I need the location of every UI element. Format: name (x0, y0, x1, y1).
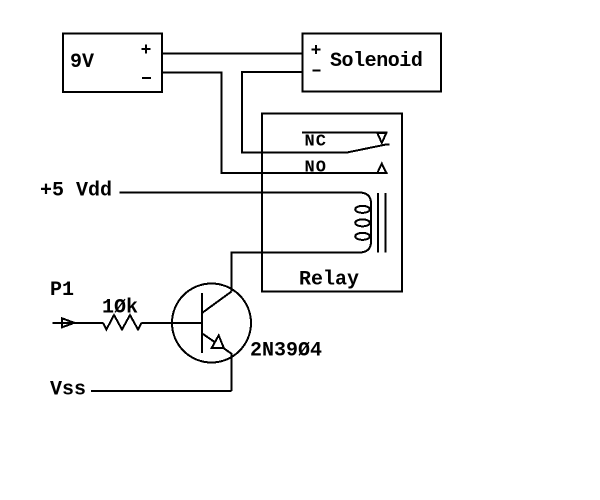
relay NC contact line (302, 132, 388, 134)
relay coil loop 2 (355, 219, 370, 226)
wire +5 Vdd to relay coil (120, 192, 263, 194)
svg-text:P1: P1 (50, 279, 74, 302)
svg-text:Relay: Relay (299, 269, 359, 292)
transistor emitter lead (202, 333, 232, 391)
resistor R1 10k zigzag (103, 315, 142, 330)
svg-text:+5 Vdd: +5 Vdd (40, 180, 112, 203)
transistor collector lead (202, 292, 232, 314)
svg-text:NO: NO (305, 159, 327, 178)
wire coil to collector (232, 253, 263, 292)
relay core line 1 (377, 193, 379, 253)
transistor Q1 circle (172, 284, 251, 363)
svg-text:1Øk: 1Øk (102, 297, 138, 320)
wire resistor to base (142, 322, 202, 324)
svg-text:NC: NC (305, 133, 327, 152)
relay switch arm (262, 145, 390, 153)
transistor base bar (201, 293, 203, 353)
battery plus terminal (142, 45, 151, 54)
input terminal arrow (53, 318, 103, 327)
relay coil loop 3 (355, 233, 370, 240)
svg-text:Vss: Vss (50, 379, 86, 402)
transistor emitter arrowhead (212, 335, 224, 348)
svg-text:9V: 9V (70, 51, 94, 74)
wire Vss to emitter (91, 390, 232, 392)
relay coil loop 1 (355, 206, 370, 213)
wire solenoid minus down to switch arm (242, 72, 303, 153)
battery B1 box (63, 34, 162, 93)
wire battery plus to solenoid plus (162, 53, 303, 55)
relay core line 2 (384, 193, 386, 253)
wire battery minus to relay NO (162, 73, 388, 173)
relay NO terminal triangle (377, 164, 386, 173)
svg-text:2N39Ø4: 2N39Ø4 (250, 340, 322, 363)
svg-text:Solenoid: Solenoid (330, 50, 422, 73)
solenoid plus terminal (312, 45, 321, 54)
relay coil outline (262, 193, 371, 253)
solenoid box (303, 34, 442, 92)
relay box (262, 113, 402, 291)
solenoid minus terminal (313, 70, 321, 72)
battery minus terminal (142, 77, 151, 79)
relay NC terminal triangle (377, 133, 386, 143)
